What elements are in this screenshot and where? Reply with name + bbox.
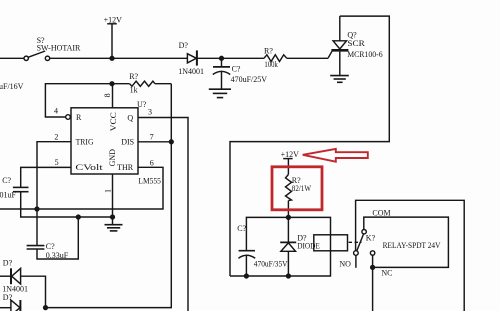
svg-text:6: 6 [150, 159, 154, 168]
diode D? bottom edge [0, 300, 20, 311]
annotation red arrow [303, 149, 368, 162]
switch S? SW-HOTAIR [24, 51, 50, 61]
wire left feed to switch [0, 57, 24, 59]
svg-text:470uF/35V: 470uF/35V [254, 259, 288, 268]
svg-text:DIS: DIS [121, 138, 134, 147]
wire 1k to DIS vertical [155, 83, 171, 85]
svg-text:8: 8 [103, 93, 112, 97]
svg-text:1: 1 [104, 189, 113, 193]
svg-text:C?: C? [237, 224, 246, 233]
svg-text:GND: GND [108, 149, 117, 167]
svg-text:3: 3 [148, 108, 152, 117]
svg-text:NO: NO [339, 260, 351, 269]
svg-text:4: 4 [54, 107, 58, 116]
svg-text:VCC: VCC [109, 112, 118, 131]
wire output Q pin3 [138, 118, 188, 311]
svg-text:C?: C? [232, 64, 241, 73]
svg-text:100k: 100k [264, 60, 277, 69]
svg-text:82/1W: 82/1W [292, 184, 312, 193]
node junction TRIG/THR line [35, 207, 39, 211]
wire CVolt pin5 [21, 167, 71, 187]
wire diode to resistor [198, 57, 264, 59]
wire DIS discharge vertical [46, 84, 172, 308]
transistor Q? SCR MCR100-6 [331, 16, 348, 75]
svg-text:COM: COM [372, 209, 390, 218]
capacitor C? .01uF [13, 187, 113, 217]
wire dashed mechanical link [349, 241, 362, 243]
ground below C? 470uF/25V [209, 89, 231, 97]
wire relay outer loop [356, 200, 465, 311]
svg-text:R?: R? [129, 72, 138, 81]
svg-text:C?: C? [2, 176, 11, 185]
svg-text:Q: Q [127, 114, 133, 123]
capacitor C? 470uF/35V [238, 251, 255, 276]
node junction DIS pin7 [169, 140, 173, 144]
svg-text:LM555: LM555 [138, 176, 161, 185]
wire reset pin4 corner [45, 84, 129, 117]
power +12V top [107, 24, 117, 59]
node NO contact [354, 251, 359, 268]
node junction cap C? 470uF/25V [220, 56, 224, 60]
capacitor C? 470uF/25V [213, 58, 230, 88]
relay body RELAY-SPDT 24V [364, 217, 449, 267]
svg-text:R: R [76, 113, 82, 122]
svg-text:THR: THR [117, 163, 134, 172]
SECTION: red annotations [272, 149, 368, 210]
svg-text:D?: D? [3, 259, 13, 268]
node junction +12V/rail [110, 56, 114, 60]
svg-text:NC: NC [381, 269, 392, 278]
svg-text:Q?: Q? [347, 30, 357, 39]
svg-text:01uF: 01uF [0, 191, 17, 200]
svg-text:RELAY-SPDT 24V: RELAY-SPDT 24V [383, 241, 441, 250]
svg-text:R?: R? [264, 46, 273, 55]
node junction GND pin1 [111, 215, 115, 219]
node junction 0.33uF return [76, 215, 80, 219]
svg-text:470uF/25V: 470uF/25V [231, 75, 268, 84]
svg-text:MCR100-6: MCR100-6 [347, 50, 382, 59]
node NC contact [370, 251, 374, 311]
wire relay blade [357, 234, 364, 251]
svg-text:CVolt: CVolt [75, 163, 103, 172]
svg-text:TRIG: TRIG [76, 137, 94, 146]
svg-text:1k: 1k [130, 86, 138, 95]
node junction flyback diode bottom [287, 274, 291, 278]
svg-text:5: 5 [55, 158, 59, 167]
capacitor C? 0.33uF [27, 217, 79, 259]
svg-text:D?: D? [179, 41, 189, 50]
svg-text:K?: K? [366, 234, 376, 243]
svg-text:SW-HOTAIR: SW-HOTAIR [37, 44, 81, 53]
node junction diode pair [44, 306, 48, 310]
annotation red box around R 82/1W [272, 167, 322, 210]
node junction 470uF/35V [245, 274, 249, 278]
wire top bus of snubber [246, 217, 330, 250]
resistor R? 1k [130, 81, 155, 86]
wire switch to diode [50, 57, 188, 59]
resistor R? 100k [264, 55, 287, 62]
ground below LM555 [105, 217, 123, 231]
node junction NC lead [371, 266, 375, 270]
op-amp U? LM555 box [66, 84, 138, 217]
node junction resistor/diode top [287, 216, 291, 220]
diode D? 1N4001 top [187, 50, 197, 65]
svg-text:7: 7 [150, 132, 154, 141]
svg-text:U?: U? [137, 100, 147, 109]
svg-text:SCR: SCR [347, 39, 365, 48]
svg-text:+12V: +12V [104, 16, 123, 25]
wire feed corner to cap node [230, 275, 246, 277]
svg-text:D?: D? [3, 293, 13, 302]
svg-text:uF/16V: uF/16V [0, 82, 24, 91]
svg-text:DIODE: DIODE [297, 242, 320, 251]
wire bottom bus of snubber [246, 251, 330, 276]
wire resistor to SCR gate [287, 51, 332, 59]
node COM contact [362, 230, 366, 234]
wire THR pin6 [0, 167, 163, 209]
wire through relay coil [330, 235, 332, 251]
node junction 12V rail / 1k line [110, 82, 114, 86]
wire DIS pin7 [138, 141, 171, 143]
ground below SCR [330, 76, 349, 83]
svg-text:1N4001: 1N4001 [178, 67, 204, 76]
svg-text:+12V: +12V [281, 150, 300, 159]
diode D? DIODE flyback [280, 217, 296, 276]
svg-text:2: 2 [54, 132, 58, 141]
resistor R? 82/1W [286, 175, 292, 218]
wire SCR anode loop to lower section [230, 16, 389, 276]
wire TRIG pin2 [37, 142, 71, 246]
diode D? 1N4001 lower left [0, 268, 46, 307]
relay coil K? box [314, 235, 348, 251]
svg-text:0.33uF: 0.33uF [46, 251, 69, 260]
power +12V snubber [283, 159, 292, 175]
